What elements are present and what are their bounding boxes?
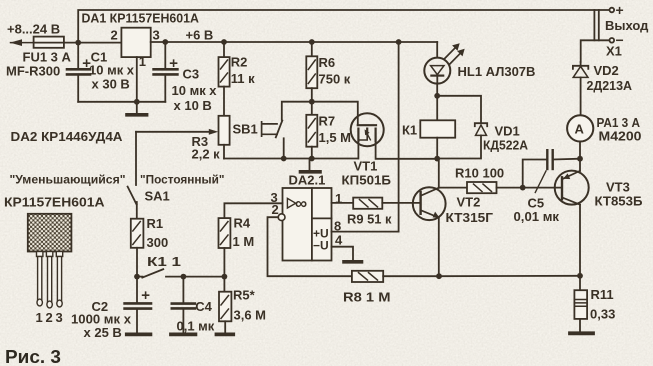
svg-text:+6 В: +6 В: [186, 28, 214, 43]
svg-text:FU1 3 А: FU1 3 А: [23, 50, 72, 65]
node R8/emitter/rail: [436, 273, 442, 279]
wire R3 bottom: [223, 145, 225, 159]
node C2: [134, 274, 140, 280]
transistor VT3: [555, 171, 589, 205]
resistor R4: [219, 218, 231, 248]
wire VT2 collector to R10: [439, 187, 467, 189]
potentiometer R3: [219, 116, 230, 145]
wire R4 bottom: [223, 248, 225, 277]
wire R11 bottom: [579, 319, 581, 332]
node R7 bottom: [309, 156, 315, 162]
ground R5: [217, 332, 234, 336]
svg-text:SB1: SB1: [233, 122, 258, 137]
wire top +rail: [78, 10, 609, 43]
wire R7 bottom: [311, 147, 313, 159]
svg-text:R7: R7: [319, 114, 336, 129]
svg-text:11 к: 11 к: [231, 71, 255, 86]
svg-text:К1: К1: [402, 123, 417, 138]
transistor VT1: [351, 113, 384, 146]
wire R10 to VT3 base: [497, 187, 563, 189]
svg-text:SA1: SA1: [145, 189, 170, 204]
wire output minus: [581, 40, 610, 62]
node C4: [181, 274, 187, 280]
svg-text:DA2 КР1446УД4А: DA2 КР1446УД4А: [11, 129, 124, 144]
node pin1/ground: [134, 99, 140, 105]
svg-text:0,33: 0,33: [590, 307, 615, 322]
svg-text:Рис. 3: Рис. 3: [5, 347, 61, 366]
ground under DA1: [136, 102, 138, 114]
svg-text:2: 2: [272, 202, 279, 217]
wire R8 to emitter node: [383, 275, 439, 277]
wire VT2 emitter down: [438, 218, 440, 277]
resistor R2: [223, 42, 225, 57]
svg-text:R9 51 к: R9 51 к: [347, 212, 392, 227]
ground C2: [127, 332, 151, 336]
ammeter PA1: [567, 115, 593, 141]
wire fuse to DA1 pin2: [64, 42, 122, 44]
wire HL1 to K1: [436, 84, 438, 121]
svg-text:+: +: [616, 2, 624, 18]
package legs: [37, 252, 43, 257]
wire pin1 to R9: [332, 202, 354, 204]
svg-text:DA2.1: DA2.1: [289, 173, 326, 188]
wire +6V rail: [151, 41, 438, 43]
wire VT2 collector up: [438, 159, 440, 188]
svg-text:VT1: VT1: [354, 159, 378, 174]
wire PA1 to VT3 emitter: [579, 142, 581, 171]
resistor R5: [223, 277, 225, 292]
wire ground rail R3..VT1: [224, 158, 358, 160]
svg-text:КТ315Г: КТ315Г: [446, 210, 494, 225]
svg-text:R4: R4: [234, 216, 251, 231]
svg-text:R8 1 М: R8 1 М: [343, 290, 391, 305]
resistor R9: [353, 198, 382, 209]
ground R11: [570, 331, 593, 335]
svg-text:"Уменьшающийся": "Уменьшающийся": [10, 173, 126, 187]
svg-text:0,01 мк: 0,01 мк: [514, 209, 560, 224]
diode VD2: [580, 62, 582, 66]
wire R5 bottom: [224, 321, 226, 333]
svg-text:HL1 АЛ307В: HL1 АЛ307В: [458, 64, 536, 79]
wire pin8: [332, 231, 399, 233]
resistor R7: [311, 102, 313, 115]
wire K1 bottom: [436, 138, 438, 159]
LED HL1: [424, 58, 450, 84]
wire pin3 to R4: [224, 203, 282, 218]
svg-text:VD1: VD1: [495, 124, 520, 139]
svg-text:R6: R6: [319, 55, 336, 70]
connector X1 parallel lines: [593, 10, 595, 40]
svg-text:3: 3: [56, 310, 63, 325]
node R4/R5: [222, 274, 228, 280]
svg-text:1 М: 1 М: [233, 234, 255, 249]
svg-text:X1: X1: [606, 44, 622, 59]
capacitor C1: [77, 43, 79, 70]
svg-text:3: 3: [153, 28, 160, 43]
wire C1 to C3 bottoms: [78, 101, 165, 103]
node C5 branch: [520, 185, 526, 191]
node C5/VT3: [577, 156, 583, 162]
svg-text:К1 1: К1 1: [147, 254, 181, 269]
svg-text:КТ853Б: КТ853Б: [595, 194, 643, 209]
resistor R8: [352, 271, 383, 282]
node +6V to vertical feed: [396, 39, 402, 45]
svg-text:1,5 М: 1,5 М: [319, 130, 352, 145]
terminal minus: [610, 38, 615, 43]
wire R2 to R3: [223, 87, 225, 116]
wire DA1 pin1 down: [136, 57, 138, 102]
diode VD1: [475, 123, 487, 126]
resistor R10: [467, 182, 497, 193]
capacitor C2: [136, 277, 138, 304]
transistor VT2: [413, 187, 446, 220]
relay contact K1.1: [142, 269, 163, 277]
svg-text:3,6 М: 3,6 М: [234, 308, 267, 323]
svg-text:2: 2: [111, 28, 118, 43]
svg-text:1: 1: [139, 54, 146, 69]
wire pin2 to R8: [268, 217, 352, 276]
resistor R6: [311, 42, 313, 56]
ground C4: [171, 332, 195, 336]
svg-text:10 мк х: 10 мк х: [89, 63, 135, 78]
wire rail corner to HL1: [436, 42, 438, 58]
ground pin4: [344, 260, 362, 264]
wire VT3 collector down: [579, 205, 581, 276]
svg-text:R11: R11: [591, 287, 614, 302]
relay K1 coil: [420, 120, 455, 137]
svg-text:2Д213А: 2Д213А: [587, 78, 633, 93]
ground under rail: [309, 159, 311, 171]
node SB1 bottom: [281, 156, 287, 162]
HL1 light arrows: [445, 46, 457, 59]
svg-text:300: 300: [147, 235, 169, 250]
node rail/R11: [577, 273, 583, 279]
svg-text:750 к: 750 к: [319, 72, 351, 87]
svg-text:2,2 к: 2,2 к: [192, 147, 221, 162]
input arrow: [11, 42, 34, 44]
svg-text:∞: ∞: [295, 194, 307, 213]
svg-text:10 мк х: 10 мк х: [172, 83, 218, 98]
svg-text:С3: С3: [183, 67, 200, 82]
svg-text:КД522А: КД522А: [483, 138, 529, 153]
wire bottom rail: [439, 275, 580, 277]
resistor R1: [131, 219, 144, 248]
switch SA1: [135, 132, 137, 185]
wire to VD1 top: [437, 96, 481, 123]
svg-text:VT2: VT2: [457, 195, 481, 210]
wire left bottom rail: [137, 276, 143, 278]
svg-text:R1: R1: [147, 216, 164, 231]
svg-text:"Постоянный": "Постоянный": [140, 173, 225, 187]
svg-text:0,1 мк: 0,1 мк: [177, 319, 215, 334]
svg-text:VT3: VT3: [606, 180, 630, 195]
svg-text:х 25 В: х 25 В: [84, 325, 122, 340]
svg-text:VD2: VD2: [594, 63, 619, 78]
wiper arrow into R3: [136, 131, 211, 133]
wire R1 bottom: [136, 248, 138, 277]
wire VT1 drain down and right: [376, 141, 438, 159]
capacitor C4: [182, 277, 184, 304]
voltage regulator DA1: [121, 28, 150, 57]
svg-text:А: А: [575, 122, 585, 137]
capacitor C3: [164, 42, 166, 69]
node R6 top: [309, 39, 315, 45]
node bracket/R6R7: [309, 99, 315, 105]
resistor R11: [579, 276, 581, 290]
svg-text:DA1 КР1157ЕН601А: DA1 КР1157ЕН601А: [82, 11, 200, 26]
svg-text:+8...24 В: +8...24 В: [7, 22, 60, 37]
capacitor C5: [523, 160, 548, 188]
wire pin4 to ground: [332, 247, 354, 261]
node K1/VD1/VT2 collector: [434, 156, 440, 162]
node C3 top: [162, 39, 168, 45]
svg-text:1: 1: [36, 310, 43, 325]
wire VT1 source down: [357, 141, 359, 159]
svg-text:R5*: R5*: [233, 288, 256, 303]
svg-text:MF-R300: MF-R300: [6, 64, 60, 79]
svg-text:R2: R2: [231, 55, 248, 70]
wire R6 bottom to bracket: [311, 88, 313, 102]
node HL1 bottom: [434, 93, 440, 99]
svg-text:х 30 В: х 30 В: [92, 77, 130, 92]
node fuse/C1/toprail: [75, 40, 81, 46]
svg-text:R10 100: R10 100: [455, 166, 504, 181]
wire vertical +6V feed to pin8: [398, 42, 400, 232]
svg-text:КП501Б: КП501Б: [342, 173, 392, 188]
node R2 top: [221, 39, 227, 45]
svg-text:М4200: М4200: [599, 129, 642, 144]
svg-text:С4: С4: [195, 299, 212, 314]
fuse FU1: [34, 37, 64, 48]
svg-text:х 10 В: х 10 В: [174, 98, 212, 113]
svg-text:КР1157ЕН601А: КР1157ЕН601А: [4, 195, 105, 210]
svg-text:4: 4: [335, 233, 343, 248]
terminal plus: [610, 8, 615, 13]
wire R9 to VT2 base: [382, 202, 420, 204]
svg-text:2: 2: [46, 310, 53, 325]
wire bracket SB1/R7/VT1-gate: [282, 102, 358, 126]
svg-text:Выход: Выход: [605, 18, 649, 33]
svg-text:−U: −U: [313, 239, 329, 253]
